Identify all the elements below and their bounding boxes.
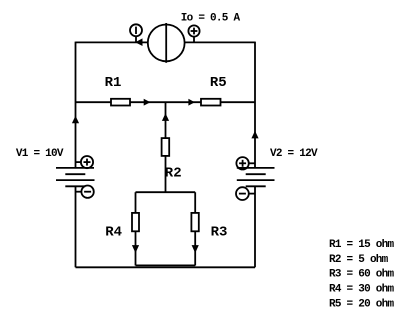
svg-text:V1 = 10V: V1 = 10V [16,148,64,160]
left rail lower [75,186,77,267]
current arrow on left rail (pointing up) [72,116,79,123]
svg-text:R2 = 5 ohm: R2 = 5 ohm [329,254,389,266]
wire R3 branch [194,192,196,265]
battery V2 plates [237,168,275,186]
current arrow on top wire (pointing left) [135,38,142,46]
wire R2 branch [165,102,167,192]
sub-loop bottom wire [136,264,196,266]
middle horizontal wire [76,101,256,103]
wire R4 branch [135,192,137,265]
wire top-left segment [76,41,149,43]
svg-text:R1 = 15 ohm: R1 = 15 ohm [329,239,395,251]
left rail upper [75,42,77,168]
resistor R4 [132,213,139,231]
svg-text:V2 = 12V: V2 = 12V [270,148,318,160]
current arrow below R4 (pointing down) [132,245,139,253]
plus terminal V2 [236,157,255,169]
plus marker right of source [188,25,199,42]
minus terminal V1 [76,186,94,198]
current arrow after R1 (pointing right) [144,99,151,106]
right rail lower [254,186,256,267]
battery V1 plates [56,168,95,186]
svg-text:R4 = 30 ohm: R4 = 30 ohm [329,283,395,295]
bottom wire [76,266,256,268]
current arrow before R5 (pointing right) [188,99,194,106]
current arrow below R3 (pointing down) [192,245,199,253]
resistor R1 [111,99,130,106]
current arrow on right rail (pointing up) [251,131,258,139]
svg-text:R3: R3 [211,225,228,241]
current arrow on R2 branch (pointing up) [162,113,169,121]
resistor R3 [191,213,198,231]
wire top-right segment [185,41,256,43]
svg-text:R2: R2 [165,166,182,182]
svg-text:R4: R4 [105,225,122,241]
svg-text:Io = 0.5 A: Io = 0.5 A [181,13,241,25]
resistor R2 [162,138,170,156]
svg-text:R1: R1 [105,75,122,91]
polarity bar marker left of source [130,24,142,42]
sub-loop top wire [136,191,196,193]
svg-text:R3 = 60 ohm: R3 = 60 ohm [329,269,395,281]
svg-text:R5 = 20 ohm: R5 = 20 ohm [329,298,395,310]
right rail upper [254,42,256,168]
resistor R5 [201,99,221,106]
minus terminal V2 [236,187,255,200]
plus terminal V1 [76,156,94,168]
current source Io [148,23,185,63]
svg-text:R5: R5 [210,75,227,91]
